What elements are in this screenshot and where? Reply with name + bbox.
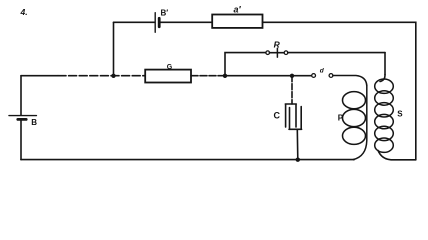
primary coil P spine and exit arc [353,86,367,160]
label d [320,67,325,74]
label B' [161,8,169,17]
primary coil P turn 1 [343,92,366,109]
label R [274,40,281,50]
interrupter R hammer tick [276,48,278,57]
capacitor C bottom comb (bar and two plates) [289,107,302,130]
svg-text:S: S [397,110,403,119]
interrupter R right contact [284,51,288,55]
capacitor C top comb (bar and two plates) [285,104,296,127]
interrupter R left contact [266,51,270,55]
wire: left vertical lower (battery B to bottom rail) [20,120,22,160]
svg-text:G: G [167,64,173,71]
wire: drop from R branch to secondary coil top [384,53,386,75]
secondary coil S turn 3 [375,103,394,117]
secondary coil S top hook into first turn [380,75,385,82]
wire: bottom rail [21,159,354,161]
secondary coil S turn 6 [375,138,394,152]
secondary coil S turn 4 [375,114,394,128]
svg-text:B′: B′ [161,8,169,17]
battery B long plate [9,115,36,117]
wire: top rail from B' to resistor a' [159,21,212,23]
wire: secondary coil exit to bottom-right corner [378,151,416,160]
figure number 4. [20,7,28,17]
svg-text:4.: 4. [20,7,28,17]
wire: R branch right + drop to secondary coil top [288,52,385,54]
wire: middle rail from box G to R-branch node [191,75,225,77]
junction dot: R branch on middle rail [223,74,227,78]
capacitor C top lead [291,76,293,104]
battery B' short plate [158,18,161,26]
battery B' long plate [154,13,156,33]
wire: top-left riser [113,22,115,75]
capacitor C bottom lead [296,129,299,159]
label a' [234,5,242,15]
label P [338,114,344,123]
wire: middle rail left broken segment [58,75,145,77]
secondary coil S turn 2 [375,91,394,105]
label B [31,118,37,127]
secondary coil S turn 5 [375,126,394,140]
resistor G box [145,70,191,83]
svg-text:R: R [274,40,281,50]
wire: middle rail from R node to switch d [225,75,312,77]
wire: top rail right + right edge vertical [263,22,416,160]
primary coil P turn 3 [343,127,366,144]
junction dot: riser on middle rail [111,74,115,78]
battery B short plate [18,118,26,121]
switch d left contact [312,74,316,78]
wire: left vertical upper (rail corner down to battery B) [20,76,22,115]
label G [167,64,173,71]
svg-text:B: B [31,118,37,127]
wire: between R contacts [270,52,285,54]
resistor a' box [212,15,262,28]
wire: switch d to primary coil entry [333,76,367,86]
switch d right contact [329,74,333,78]
junction dot: capacitor top on middle rail [290,74,294,78]
wire: middle rail left segment (battery corner to box G) [21,75,58,77]
secondary coil S turn 1 [375,79,394,93]
svg-text:a′: a′ [234,5,242,15]
primary coil P turn 2 [343,109,366,126]
label S [397,110,403,119]
junction dot: capacitor bottom on rail [296,158,300,162]
svg-text:C: C [274,111,281,121]
wire: top rail from riser to battery B' [114,21,155,23]
svg-text:P: P [338,114,344,123]
svg-text:d: d [320,67,325,74]
label C [274,111,281,121]
wire: R branch left vertical [225,53,266,76]
